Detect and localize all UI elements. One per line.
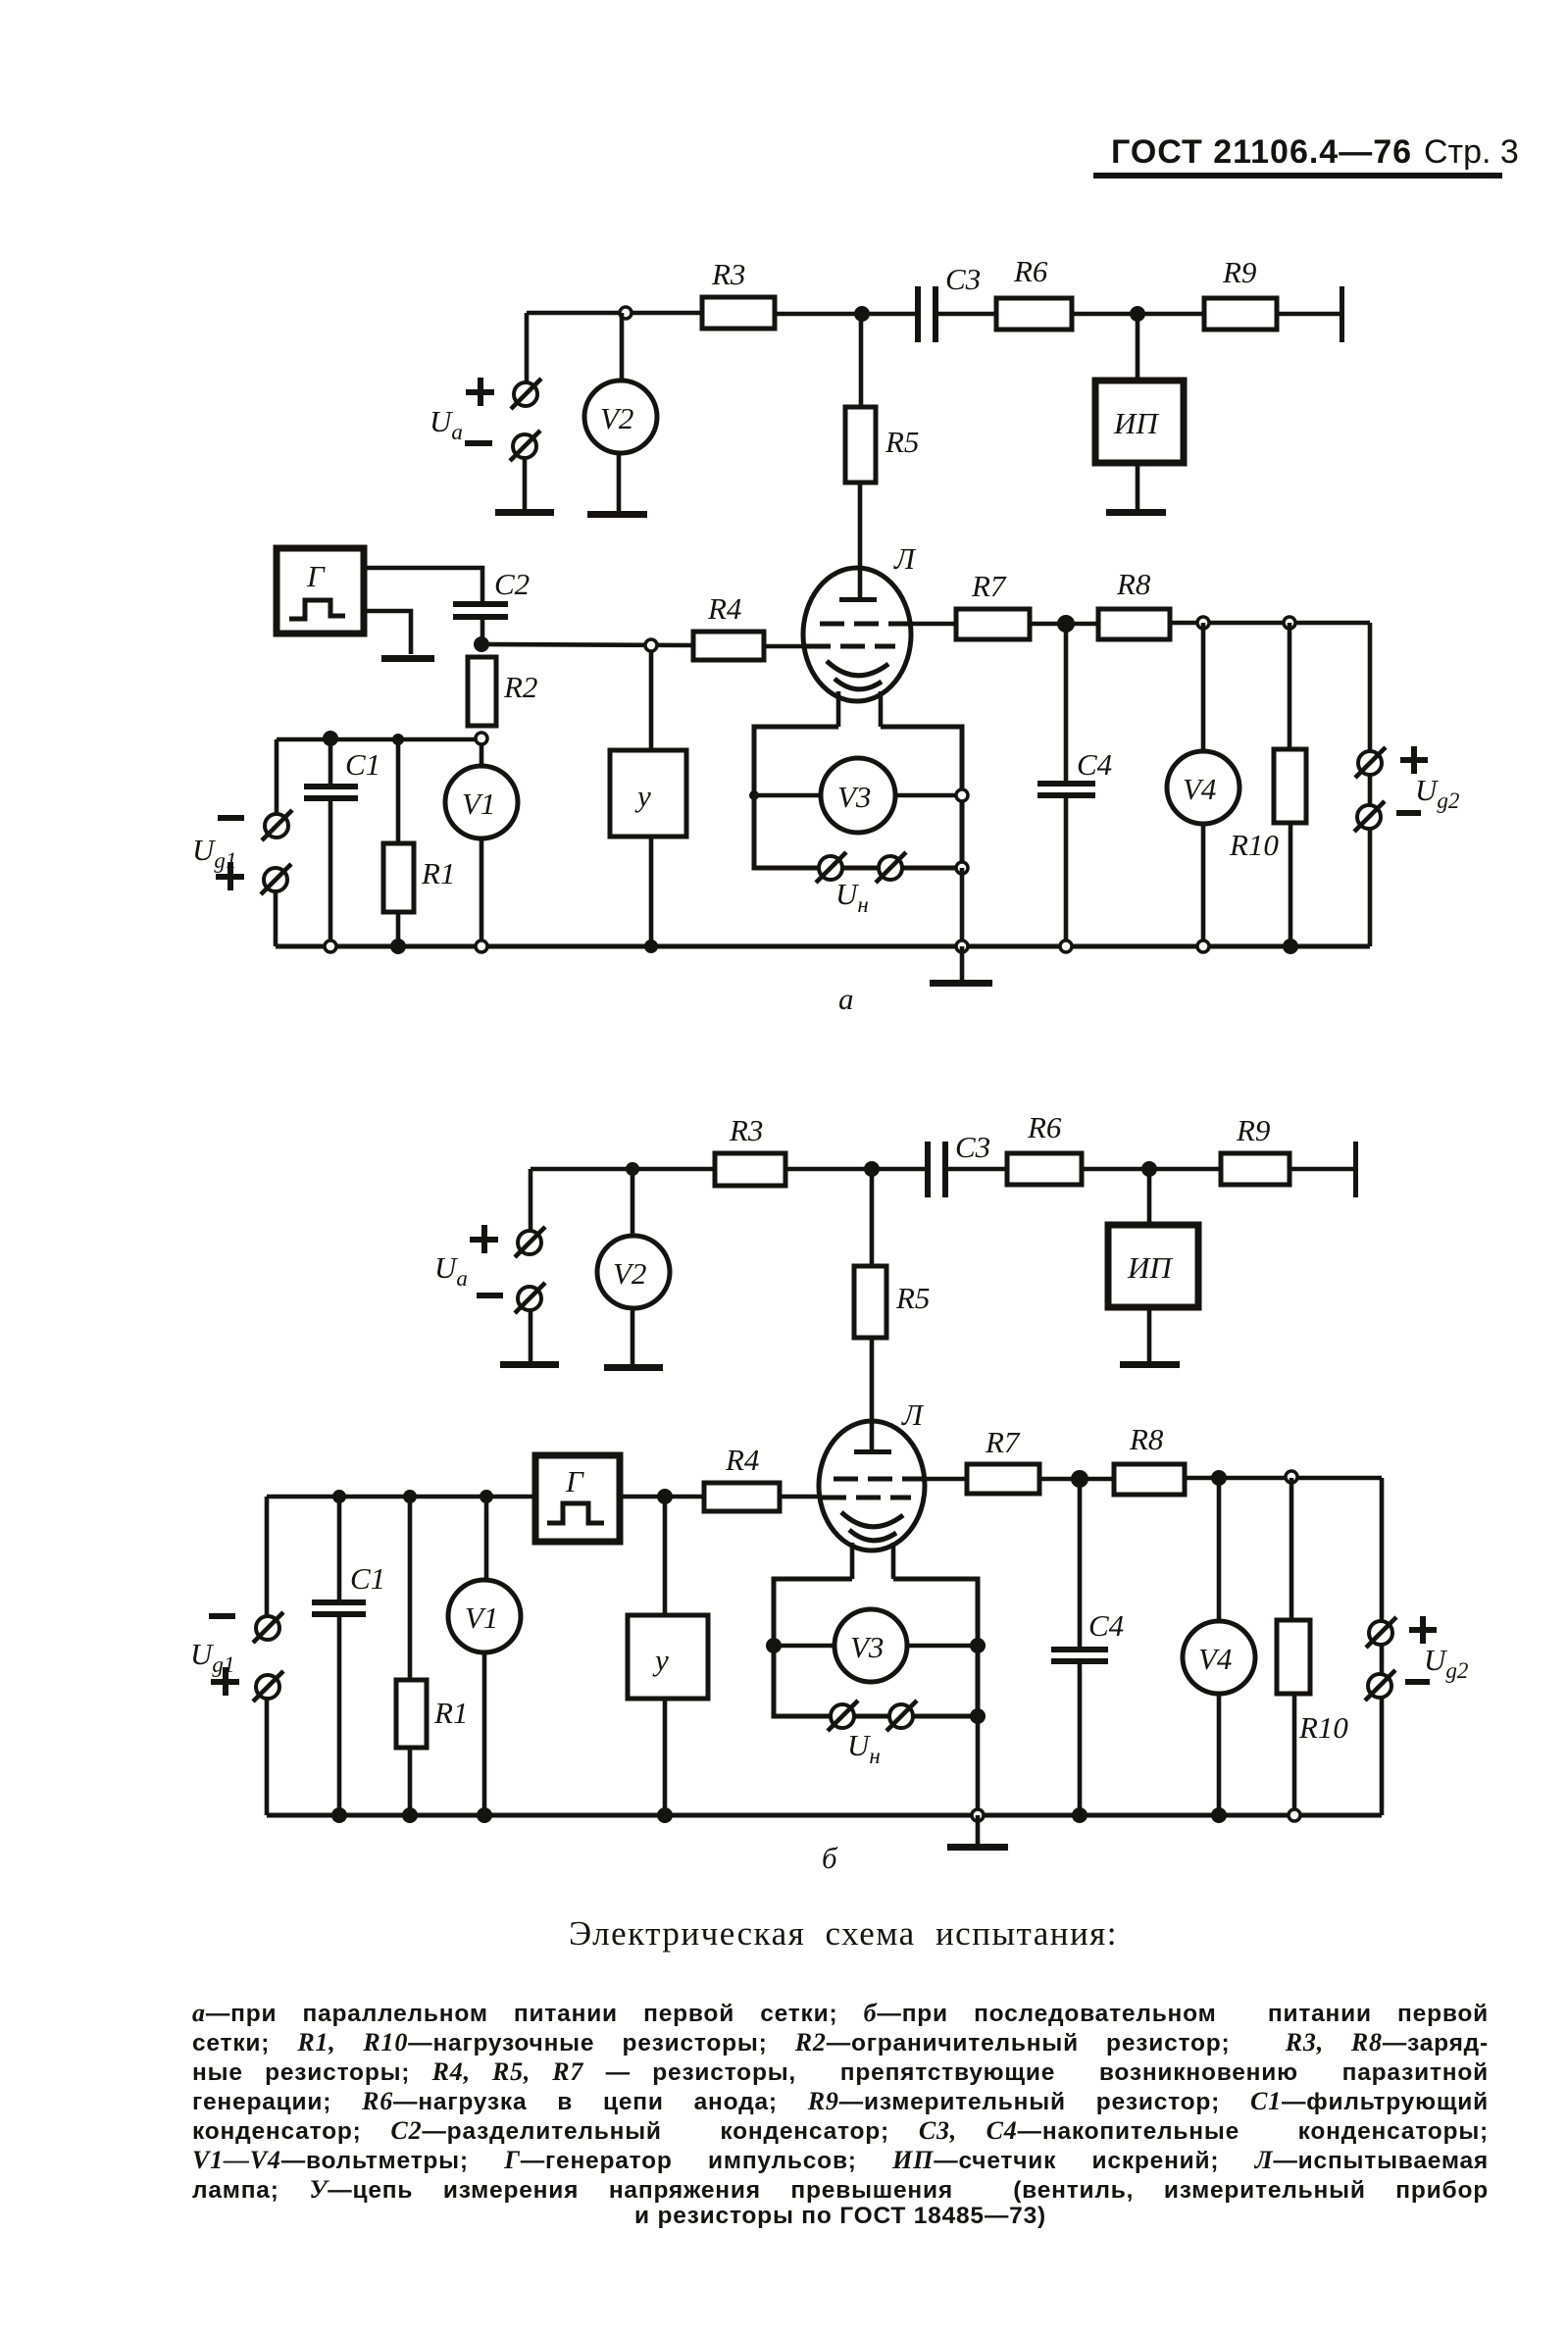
wire R9 to terminal — [1290, 1167, 1354, 1172]
svg-text:R4: R4 — [725, 1443, 759, 1477]
node R10 tap (open) — [1284, 617, 1295, 629]
wire V1 to bottom rail — [482, 1652, 487, 1815]
terminal Ø Ug2 minus — [1365, 1670, 1395, 1701]
ground V2 — [604, 1364, 663, 1371]
label V1 — [462, 787, 495, 821]
tube grid 2 dashes — [834, 1477, 923, 1482]
voltmeter V4 — [1167, 751, 1239, 824]
node R5 tap — [864, 1161, 880, 1177]
wire Ug1 to bottom rail — [274, 891, 278, 946]
wire V4 top — [1217, 1478, 1222, 1622]
label Л — [893, 541, 917, 576]
minus sign Ug2 — [1396, 810, 1421, 816]
measuring unit У box — [610, 750, 686, 837]
svg-text:V2: V2 — [600, 401, 633, 435]
terminal Ø heater right — [886, 1701, 917, 1731]
wire left Ug1 down — [265, 1497, 270, 1616]
label Uн — [835, 877, 869, 917]
label R9 — [1236, 1113, 1270, 1147]
terminal Ø Ug1 plus — [253, 1671, 283, 1701]
label Ua — [430, 404, 463, 444]
voltmeter V2 — [597, 1236, 670, 1308]
svg-text:R5: R5 — [895, 1281, 930, 1315]
wire R10 top — [1288, 623, 1292, 749]
node rail C4 (open) — [1060, 940, 1072, 952]
label V3 — [837, 780, 871, 814]
resistor R6 — [996, 298, 1072, 330]
capacitor C4 — [1051, 1647, 1108, 1652]
label R2 — [503, 670, 537, 704]
capacitor C3 — [925, 1142, 931, 1197]
svg-text:R6: R6 — [1013, 254, 1048, 288]
svg-text:R9: R9 — [1236, 1113, 1270, 1147]
node rail heater (open) — [972, 1809, 984, 1821]
pulse generator Г box — [277, 548, 364, 634]
resistor R5 — [845, 407, 876, 482]
label V4 — [1198, 1642, 1232, 1676]
svg-text:Ug2: Ug2 — [1415, 773, 1459, 813]
node heater left — [766, 1638, 782, 1653]
wire V1 top — [480, 744, 484, 766]
voltmeter V1 — [448, 1580, 521, 1652]
wire Г to R4 — [620, 1495, 704, 1499]
label R1 — [421, 856, 455, 890]
node rail У — [644, 939, 658, 953]
node C1 tap — [332, 1490, 346, 1503]
resistor R1 — [383, 843, 414, 912]
wire R6 to R9 — [1082, 1167, 1221, 1172]
tube grid 2 dashes — [820, 622, 908, 627]
label Ug2 — [1424, 1643, 1468, 1683]
terminal Ø Ug2 minus — [1354, 801, 1385, 832]
wire tube to R7 — [908, 622, 956, 627]
label Ug1 — [190, 1637, 234, 1677]
wire Ua to ground — [529, 1310, 533, 1363]
wire C4 down — [1078, 1479, 1083, 1647]
svg-text:Uа: Uа — [434, 1250, 468, 1291]
node rail У — [657, 1807, 673, 1823]
plus sign Ug2 — [1409, 1616, 1437, 1644]
label R10 — [1229, 828, 1279, 862]
wire V3 left — [774, 1644, 835, 1649]
wire V3 right — [895, 793, 962, 798]
measuring unit У box — [628, 1615, 708, 1699]
svg-text:R1: R1 — [433, 1696, 468, 1730]
svg-text:Uн: Uн — [835, 877, 869, 917]
resistor R4 — [693, 632, 764, 660]
wire top rail left segment — [527, 311, 702, 316]
terminal Ø Ug1 minus — [262, 810, 292, 840]
label Ug1 — [192, 833, 236, 873]
minus sign Ug1 — [209, 1613, 235, 1619]
wire R3 to C3 — [785, 1167, 927, 1172]
caption title — [118, 1914, 1568, 1954]
capacitor C1 — [304, 784, 358, 789]
wire C2 down — [481, 620, 485, 643]
label C3 — [945, 262, 981, 296]
terminal bar right — [1353, 1142, 1358, 1197]
svg-text:C3: C3 — [945, 262, 981, 296]
label a — [838, 982, 854, 1016]
svg-text:Стр. 3: Стр. 3 — [1424, 133, 1519, 171]
wire C1 top — [329, 739, 333, 784]
plus sign Ua — [466, 378, 494, 406]
node ИП tap — [1130, 306, 1145, 322]
tube cathode arcs — [827, 661, 888, 676]
ground ИП — [1106, 509, 1166, 516]
wire top rail left segment — [531, 1167, 715, 1172]
node R1 tap — [392, 734, 404, 745]
capacitor C4 — [1037, 781, 1095, 787]
resistor R8 — [1098, 609, 1170, 639]
label Г — [565, 1464, 584, 1498]
wire ИП to ground — [1136, 463, 1140, 511]
wire C4 down — [1064, 624, 1069, 781]
plus sign Ug1 — [211, 1667, 239, 1696]
node below R2 (open) — [476, 733, 487, 744]
resistor R9 — [1221, 1153, 1290, 1185]
label V3 — [850, 1630, 884, 1664]
tube anode plate — [854, 1449, 891, 1454]
wire R10 to bottom rail — [1289, 823, 1293, 946]
caption line 8 — [192, 2203, 1489, 2230]
node R5 tap — [854, 306, 870, 322]
spark counter ИП — [1108, 1225, 1198, 1307]
minus sign Ua — [465, 440, 492, 446]
ground Г — [381, 655, 434, 662]
node C1 tap — [323, 731, 338, 746]
node V4 tap (open) — [1197, 617, 1209, 629]
capacitor C3 — [915, 286, 921, 342]
node У tap (open) — [645, 639, 657, 651]
pulse symbol in Г — [289, 600, 345, 619]
caption line 7 — [192, 2175, 1489, 2205]
wire junction to R4 — [481, 644, 693, 645]
wire R8 to corner — [1170, 621, 1370, 626]
resistor R1 — [396, 1680, 427, 1748]
wire V2 to ground — [631, 1308, 635, 1365]
svg-text:V3: V3 — [837, 780, 871, 814]
resistor R3 — [715, 1153, 785, 1186]
wire R1 to bottom rail — [408, 1748, 413, 1815]
wire У to bottom rail — [649, 837, 654, 946]
svg-text:R3: R3 — [729, 1113, 763, 1147]
label R6 — [1027, 1110, 1062, 1144]
resistor R8 — [1114, 1464, 1185, 1495]
wire grid feed row — [267, 1495, 535, 1499]
wire R6 to R9 — [1072, 312, 1204, 317]
voltmeter V1 — [445, 766, 518, 838]
label Г — [306, 559, 326, 593]
svg-text:C4: C4 — [1077, 747, 1112, 782]
node rail C1 (open) — [325, 940, 336, 952]
tube grid 1 dashes — [806, 644, 895, 649]
spark counter ИП — [1095, 381, 1184, 463]
svg-text:R4: R4 — [707, 591, 741, 626]
svg-text:R9: R9 — [1222, 255, 1256, 289]
wire R3 to C3 — [775, 312, 918, 317]
terminal bar right — [1340, 286, 1344, 342]
label V1 — [465, 1600, 498, 1635]
caption line 3 — [192, 2057, 1489, 2087]
minus sign Ug1 — [218, 815, 244, 821]
heater box outline — [754, 727, 962, 868]
label R6 — [1013, 254, 1048, 288]
wire heater to bottom rail — [976, 1716, 981, 1815]
svg-text:R7: R7 — [971, 569, 1007, 603]
node V1 tap — [480, 1490, 493, 1503]
wire R10 top — [1290, 1478, 1294, 1620]
ground ИП — [1120, 1361, 1180, 1368]
wire R5 top — [859, 314, 864, 407]
minus sign Ua — [477, 1293, 503, 1298]
svg-text:C2: C2 — [494, 567, 530, 601]
ground б — [947, 1844, 1008, 1851]
label V2 — [613, 1256, 646, 1291]
svg-text:Uн: Uн — [847, 1728, 881, 1768]
node rail heater (open) — [956, 940, 968, 952]
terminal Ø Ug1 minus — [253, 1612, 283, 1643]
label R1 — [433, 1696, 468, 1730]
bottom rail б — [267, 1813, 1382, 1818]
wire V4 to bottom rail — [1217, 1694, 1222, 1815]
label C1 — [345, 747, 380, 782]
plus sign Ug1 — [216, 862, 244, 890]
node heater right (open) — [956, 789, 968, 801]
plus sign Ua — [470, 1225, 498, 1253]
terminal Ø Ua plus — [511, 379, 541, 409]
wire tube to R7 — [923, 1477, 967, 1482]
svg-text:R6: R6 — [1027, 1110, 1062, 1144]
wire V2 up — [631, 1169, 635, 1237]
wire Г lower to ground — [364, 611, 411, 654]
terminal Ø Ua plus — [515, 1227, 545, 1257]
wire V3 left — [754, 793, 821, 798]
node rail V1 — [477, 1807, 492, 1823]
resistor R9 — [1204, 298, 1277, 330]
label R9 — [1222, 255, 1256, 289]
label C4 — [1088, 1608, 1124, 1643]
terminal Ø Ug2 plus — [1366, 1617, 1396, 1648]
wire У top — [649, 651, 654, 750]
node C4 tap — [1071, 1470, 1088, 1488]
node V4 tap — [1211, 1470, 1227, 1486]
svg-text:C1: C1 — [350, 1561, 385, 1596]
node rail V1 (open) — [476, 940, 487, 952]
svg-text:V2: V2 — [613, 1256, 646, 1291]
label V2 — [600, 401, 633, 435]
caption line 2 — [192, 2028, 1489, 2057]
label у — [634, 779, 651, 813]
resistor R2 — [468, 657, 496, 726]
wire R4 to tube grid — [764, 644, 807, 649]
wire right column down — [1380, 1478, 1385, 1815]
label б — [822, 1841, 838, 1875]
node rail R1 — [402, 1807, 418, 1823]
wire Ua to ground — [523, 458, 528, 511]
label C1 — [350, 1561, 385, 1596]
capacitor C1 — [312, 1600, 366, 1605]
node R10 tap (open) — [1286, 1471, 1297, 1483]
label C2 — [494, 567, 530, 601]
wire ground stem a — [960, 946, 965, 981]
node ИП tap — [1141, 1161, 1157, 1177]
wire C1 top — [337, 1497, 342, 1600]
label R7 — [985, 1425, 1021, 1459]
svg-text:у: у — [634, 779, 651, 813]
label R8 — [1129, 1422, 1164, 1456]
label ИП — [1127, 1250, 1173, 1285]
label R4 — [707, 591, 741, 626]
wire ground stem б — [976, 1815, 981, 1846]
node rail V4 (open) — [1197, 940, 1209, 952]
pulse symbol in Г — [547, 1503, 604, 1523]
tube neck leads — [850, 1543, 855, 1579]
label R3 — [729, 1113, 763, 1147]
node rail C4 — [1072, 1807, 1087, 1823]
wire R1 top — [396, 739, 401, 843]
ground Ua — [500, 1361, 559, 1368]
tube cathode arcs — [841, 1512, 903, 1527]
svg-text:R2: R2 — [503, 670, 537, 704]
label Ug2 — [1415, 773, 1459, 813]
caption line 4 — [192, 2087, 1489, 2116]
label R10 — [1298, 1710, 1348, 1745]
svg-text:R8: R8 — [1116, 567, 1151, 601]
label ИП — [1113, 406, 1159, 440]
svg-text:ИП: ИП — [1127, 1250, 1173, 1285]
terminal Ø heater right — [876, 852, 906, 883]
wire V2 to ground — [617, 453, 622, 513]
svg-text:а: а — [838, 982, 854, 1016]
resistor R3 — [702, 297, 775, 329]
svg-text:R10: R10 — [1298, 1710, 1348, 1745]
resistor R7 — [967, 1464, 1039, 1494]
svg-text:у: у — [652, 1643, 669, 1677]
capacitor C2 — [453, 601, 508, 607]
label R4 — [725, 1443, 759, 1477]
node rail R10 (open) — [1289, 1809, 1300, 1821]
svg-text:Л: Л — [901, 1397, 925, 1432]
wire V1 top — [484, 1497, 489, 1580]
wire Ua branch down — [525, 313, 530, 382]
wire У to bottom rail — [663, 1699, 668, 1815]
wire Ua branch down — [529, 1169, 533, 1231]
node heater bottom right — [970, 1708, 986, 1724]
terminal Ø heater left — [816, 852, 846, 883]
plus sign Ug2 — [1400, 746, 1428, 774]
minus sign Ug2 — [1405, 1679, 1430, 1685]
wire R8 to corner — [1185, 1476, 1382, 1481]
svg-text:R3: R3 — [711, 257, 745, 291]
svg-text:Г: Г — [306, 559, 326, 593]
svg-text:R8: R8 — [1129, 1422, 1164, 1456]
node rail R1 — [390, 939, 406, 954]
wire V2 up — [620, 313, 625, 381]
node rail C1 — [331, 1807, 347, 1823]
wire R1 to bottom rail — [396, 912, 401, 946]
tube Л envelope — [803, 568, 911, 701]
node C2/R2 junction — [474, 636, 489, 652]
label R7 — [971, 569, 1007, 603]
wire R5 top — [870, 1169, 875, 1266]
svg-text:C1: C1 — [345, 747, 380, 782]
voltmeter V3 — [835, 1609, 907, 1682]
label V4 — [1183, 772, 1216, 806]
label у — [652, 1643, 669, 1677]
resistor R4 — [704, 1483, 780, 1511]
wire V4 to bottom rail — [1201, 824, 1206, 946]
wire R10 to bottom rail — [1292, 1694, 1297, 1815]
wire Г to C2 — [364, 568, 482, 601]
node V2 tap — [626, 1162, 639, 1176]
page header ГОСТ 21106.4—76 Стр. 3 — [1093, 133, 1519, 178]
pulse generator Г box — [535, 1455, 620, 1542]
wire У top — [663, 1497, 668, 1615]
resistor R5 — [854, 1266, 886, 1338]
tube Л envelope — [819, 1421, 925, 1550]
terminal Ø heater left — [828, 1701, 858, 1731]
svg-text:V3: V3 — [850, 1630, 884, 1664]
wire V1 to bottom rail — [480, 838, 484, 946]
heater box outline — [774, 1579, 978, 1716]
bottom rail a — [276, 944, 1370, 949]
svg-text:R1: R1 — [421, 856, 455, 890]
resistor R10 — [1277, 1620, 1310, 1694]
node V2 tap (open) — [620, 307, 632, 319]
ground Ua — [495, 509, 554, 516]
svg-text:V4: V4 — [1183, 772, 1216, 806]
svg-text:V4: V4 — [1198, 1642, 1232, 1676]
svg-text:V1: V1 — [462, 787, 495, 821]
svg-text:R7: R7 — [985, 1425, 1021, 1459]
wire C3 to R6 — [948, 1167, 1007, 1172]
label R5 — [885, 425, 919, 459]
svg-text:Л: Л — [893, 541, 917, 576]
wire R7 to R8 — [1039, 1477, 1114, 1482]
wire ИП feed — [1136, 314, 1140, 381]
wire R4 to tube grid — [780, 1495, 822, 1499]
label C4 — [1077, 747, 1112, 782]
wire V4 top — [1201, 623, 1206, 752]
wire grid bias row — [277, 737, 476, 742]
svg-text:Г: Г — [565, 1464, 584, 1498]
caption line 1 — [192, 1999, 1489, 2028]
ground a — [930, 980, 992, 987]
node rail V4 — [1211, 1807, 1227, 1823]
terminal Ø Ua minus — [510, 431, 540, 461]
terminal Ø Ua minus — [515, 1283, 545, 1313]
svg-text:V1: V1 — [465, 1600, 498, 1635]
label R3 — [711, 257, 745, 291]
terminal Ø Ug1 plus — [261, 864, 291, 894]
node heater left — [749, 790, 759, 800]
label C3 — [955, 1130, 990, 1164]
label Uн — [847, 1728, 881, 1768]
terminal Ø Ug2 plus — [1355, 747, 1386, 778]
label R8 — [1116, 567, 1151, 601]
wire R7 to R8 — [1030, 622, 1098, 627]
label Ua — [434, 1250, 468, 1291]
wire Ug1 to bottom rail — [265, 1699, 270, 1815]
resistor R10 — [1274, 749, 1306, 823]
svg-text:R5: R5 — [885, 425, 919, 459]
wire C4 to bottom rail — [1078, 1664, 1083, 1815]
wire C1 to bottom rail — [337, 1617, 342, 1815]
svg-text:Ug2: Ug2 — [1424, 1643, 1468, 1683]
wire heater to bottom rail — [960, 868, 965, 946]
node R1 tap — [403, 1490, 417, 1503]
